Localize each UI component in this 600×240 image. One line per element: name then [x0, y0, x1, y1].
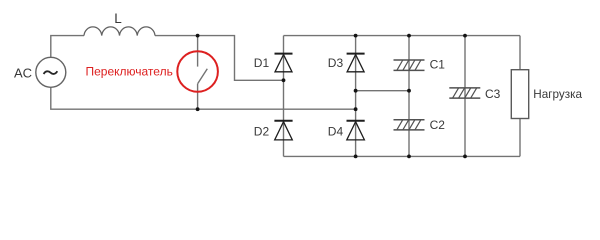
svg-text:C1: C1 — [430, 58, 446, 72]
svg-text:D3: D3 — [328, 56, 344, 70]
svg-text:C2: C2 — [430, 118, 446, 132]
svg-text:D1: D1 — [254, 56, 270, 70]
svg-text:AC: AC — [14, 65, 32, 80]
svg-text:D4: D4 — [328, 124, 344, 138]
svg-text:Нагрузка: Нагрузка — [533, 88, 582, 101]
svg-text:Переключатель: Переключатель — [86, 65, 173, 79]
svg-text:L: L — [114, 11, 122, 26]
svg-text:D2: D2 — [254, 124, 270, 138]
svg-text:C3: C3 — [485, 87, 501, 101]
